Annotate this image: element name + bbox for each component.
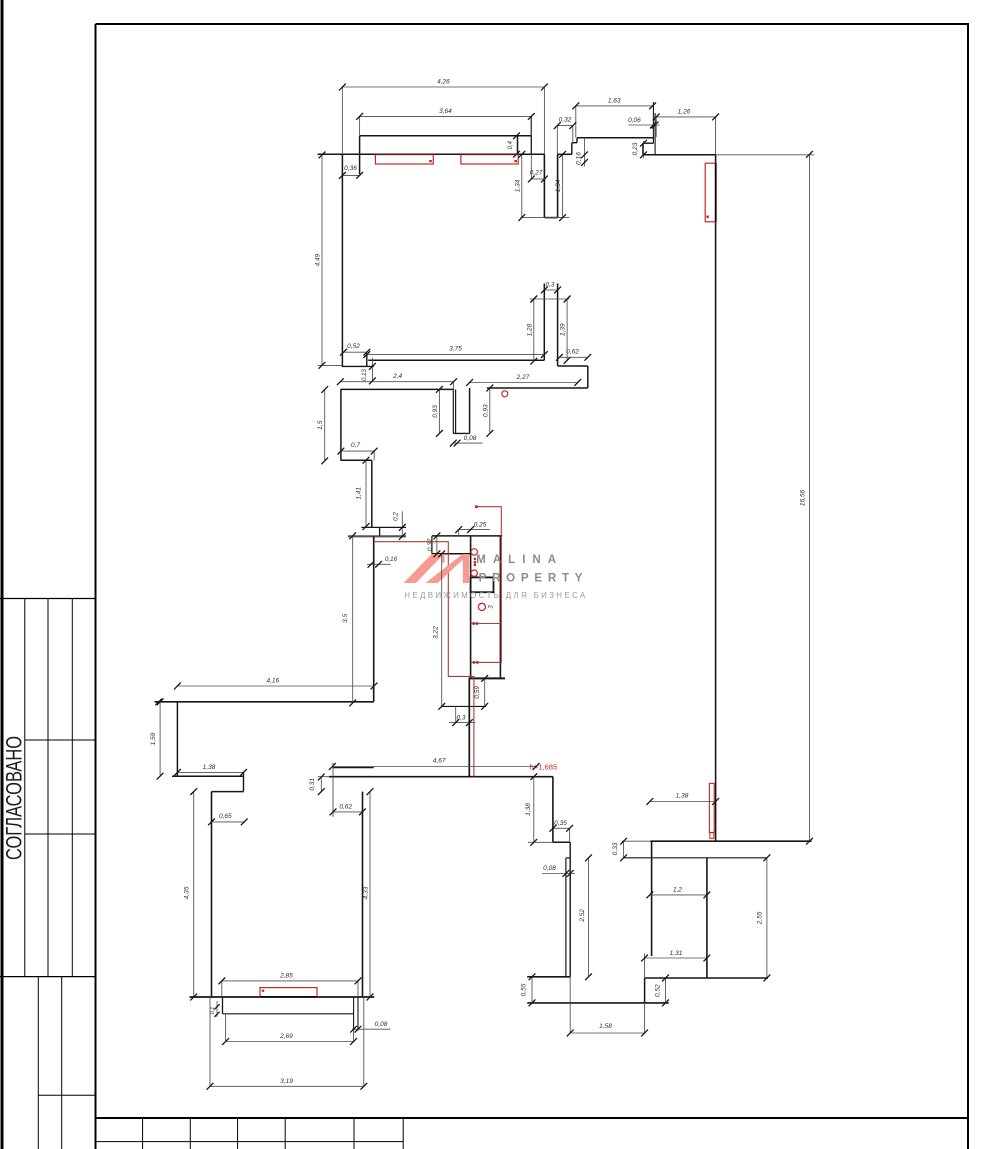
logo stripe 2 leg	[463, 554, 469, 583]
svg-text:0,16: 0,16	[385, 556, 398, 563]
extension 0,25 left	[458, 530, 460, 536]
svg-text:0,7: 0,7	[351, 442, 360, 449]
wall window jamb vertical x517	[517, 136, 519, 155]
svg-text:0,55: 0,55	[521, 983, 528, 996]
dimension 1,38 mid	[525, 773, 537, 845]
wall left wing lower horizontal	[172, 775, 244, 777]
wall niche bottom	[453, 432, 469, 434]
line 0,2 dim	[401, 511, 403, 536]
dimension 2,69	[222, 1033, 357, 1045]
extension 4,49 bottom horizontal	[318, 364, 342, 366]
svg-text:1,63: 1,63	[608, 97, 621, 104]
wall x651 vertical	[651, 841, 653, 956]
ticks 0,1 tiny	[214, 1004, 219, 1017]
ticks 0,08 niche	[450, 440, 461, 447]
wall shaft left vertical	[470, 536, 472, 678]
svg-text:0,62: 0,62	[339, 803, 352, 810]
dimension 1,38 right	[646, 793, 719, 805]
extension 2,69 right	[353, 1031, 355, 1042]
extension 1,63 left	[575, 106, 577, 138]
svg-text:4,33: 4,33	[362, 886, 369, 899]
red window rect 2	[461, 155, 518, 164]
wall niche2 right vertical	[371, 460, 373, 527]
svg-text:0,62: 0,62	[566, 348, 579, 355]
wall hall top horizontal	[340, 388, 453, 390]
wall shaft bottom cap	[469, 677, 505, 679]
svg-text:0,33: 0,33	[612, 842, 619, 855]
wall corner jog x366	[366, 353, 368, 366]
svg-text:3,75: 3,75	[449, 346, 462, 353]
svg-text:2,69: 2,69	[279, 1033, 293, 1040]
dimension 0,36 top-left	[339, 165, 363, 179]
wall room bottom inner horizontal	[223, 1013, 354, 1015]
wall overlay over window 2 top	[461, 153, 518, 155]
bottom table column line 3	[237, 1118, 239, 1149]
svg-text:0,36: 0,36	[344, 165, 357, 172]
wall vestibule bottom	[544, 217, 557, 219]
extension 3,64 right	[530, 116, 532, 135]
svg-text:16,56: 16,56	[799, 489, 806, 506]
wall corridor top horizontal	[333, 767, 374, 769]
red circle fixture 1	[471, 549, 477, 555]
svg-text:3,64: 3,64	[439, 108, 452, 115]
dimension 4,16	[174, 677, 377, 689]
svg-text:1,26: 1,26	[678, 108, 691, 115]
wall below shaft vertical	[468, 678, 470, 776]
dimension 4,67	[329, 758, 540, 770]
svg-text:1,31: 1,31	[670, 950, 683, 957]
svg-text:4,49: 4,49	[315, 253, 322, 266]
dimension 2,27	[466, 374, 581, 386]
dimension 1,34 left	[514, 151, 525, 221]
red window rect 1	[375, 155, 433, 164]
svg-text:1,38: 1,38	[203, 764, 216, 771]
red supply polyline	[374, 542, 474, 777]
svg-text:0,59: 0,59	[474, 686, 481, 699]
svg-text:0,08: 0,08	[543, 865, 556, 872]
dimension 0,35	[550, 820, 574, 832]
wall step horizontal a	[572, 142, 577, 144]
wall small horizontal y706	[442, 705, 486, 707]
wall left wing vertical	[176, 702, 178, 776]
wall corridor bottom horizontal	[329, 776, 553, 778]
dimension 4,33	[362, 788, 373, 1000]
svg-text:НЕДВИЖИМОСТЬ ДЛЯ БИЗНЕСА: НЕДВИЖИМОСТЬ ДЛЯ БИЗНЕСА	[404, 591, 587, 600]
red circle fixture 2	[471, 570, 477, 576]
line 0,08 jamb dim	[352, 1028, 390, 1030]
extension 1,26 left	[655, 117, 657, 137]
svg-text:0,65: 0,65	[219, 813, 232, 820]
dimension 0,62 door	[330, 803, 366, 815]
dimension 4,26	[339, 79, 548, 91]
extension 2,85 left	[221, 981, 223, 997]
line 0,08 doublet dim	[542, 873, 575, 875]
svg-text:0,37: 0,37	[427, 538, 434, 551]
bottom table row line	[96, 1141, 404, 1143]
svg-text:0,25: 0,25	[474, 521, 487, 528]
svg-text:1,2: 1,2	[673, 886, 682, 893]
svg-text:3: 3	[488, 605, 494, 609]
line 0,1 tiny dim	[216, 1001, 218, 1017]
ticks 0,16 low	[368, 561, 382, 568]
svg-text:1,39: 1,39	[560, 323, 567, 336]
wall lower-left horizontal y976	[527, 976, 570, 978]
red small box below	[710, 833, 714, 839]
dimension 0,31	[309, 774, 325, 795]
dimension 0,52 top-left	[340, 343, 370, 355]
ticks 0,4 window	[513, 132, 520, 157]
line 0,13 dim	[371, 358, 373, 382]
dimension 0,52 low	[655, 975, 669, 1007]
wall short horizontal y527	[361, 526, 406, 528]
wall small stub horizontal	[643, 142, 654, 144]
wall shaft top horizontal	[432, 535, 502, 537]
dimension 1,39	[560, 296, 571, 364]
wall room right vertical	[362, 792, 364, 997]
wall end vertical pair b	[654, 113, 656, 155]
line 0,06 dim	[628, 124, 660, 126]
svg-text:1,38: 1,38	[525, 803, 532, 816]
dimension 4,49	[315, 152, 326, 369]
red mark in radiator	[262, 990, 264, 992]
svg-text:2,85: 2,85	[279, 973, 293, 980]
ticks 0,13	[369, 363, 376, 384]
extension 0,3 low	[455, 706, 457, 722]
wall room top left horizontal	[212, 791, 244, 793]
wall overlay over right window	[715, 163, 717, 222]
svg-text:0,3: 0,3	[456, 714, 465, 721]
wall overlay over radiator	[260, 996, 317, 998]
dimension 3,5	[342, 532, 356, 706]
svg-text:0,52: 0,52	[655, 984, 662, 997]
wall niche left vertical b	[455, 389, 457, 433]
ticks 0,23	[640, 140, 647, 158]
wall top right horizontal	[643, 154, 716, 156]
dimension 0,65	[208, 813, 248, 825]
wall x644 vertical	[644, 978, 646, 1003]
dimension 0,59	[474, 675, 488, 710]
line 0,23 dim	[643, 141, 645, 158]
dimension 3,22	[433, 550, 446, 709]
ticks 0,06	[650, 122, 659, 129]
svg-text:0,06: 0,06	[628, 117, 641, 124]
svg-text:1,58: 1,58	[599, 1023, 612, 1030]
red riser line top	[471, 505, 502, 664]
svg-text:4,35: 4,35	[184, 886, 191, 899]
wall inner right vertical	[530, 116, 532, 154]
svg-text:СОГЛАСОВАНО: СОГЛАСОВАНО	[1, 736, 26, 860]
svg-text:1,34: 1,34	[555, 179, 562, 192]
wall step vertical b	[576, 138, 578, 143]
dimension 2,4	[337, 373, 457, 385]
svg-text:0,4: 0,4	[508, 140, 514, 149]
dimension 1,59	[150, 698, 164, 779]
red mark in window 1	[429, 160, 432, 162]
red dots between fixtures	[474, 558, 477, 567]
duct box	[471, 577, 494, 592]
dimension 0,3 chimney	[541, 281, 561, 293]
wall outer left vertical	[341, 154, 343, 366]
wall top inner horizontal	[360, 135, 532, 137]
wall connector vertical x379	[379, 527, 381, 536]
wall right long vertical	[715, 155, 717, 841]
extension 0,27	[530, 154, 532, 179]
ticks 0,08 doublet	[563, 870, 574, 877]
dimension 0,93 b	[482, 385, 493, 437]
wall chimney left vertical	[543, 284, 545, 361]
svg-text:0,08: 0,08	[375, 1021, 388, 1028]
wall mid right horizontal	[558, 365, 588, 367]
dimension 0,27	[528, 170, 548, 183]
wall room bottom jamb right vertical b	[357, 997, 359, 1031]
svg-text:2,27: 2,27	[516, 374, 530, 381]
wall bottom right horizontal y841	[650, 840, 811, 842]
svg-text:0,08: 0,08	[464, 435, 477, 442]
logo stripe 1 tail	[442, 554, 445, 563]
wall x706 vertical	[706, 858, 708, 978]
line 0,3 low dim	[449, 719, 475, 726]
svg-text:0,23: 0,23	[632, 142, 639, 155]
extension 0,7 right	[373, 451, 375, 460]
wall lower horizontal y1002	[527, 1002, 669, 1004]
svg-text:0,31: 0,31	[309, 778, 316, 791]
red branch line	[471, 622, 502, 625]
thin line vestibule bottom extension	[521, 217, 570, 219]
wall stub vertical left of window	[359, 136, 361, 174]
dimension 2,85	[218, 973, 361, 985]
dimension 0,37	[427, 533, 441, 558]
line 0,16 upper dim	[584, 138, 586, 167]
svg-text:1,59: 1,59	[150, 732, 157, 745]
title block row line 1	[25, 739, 96, 741]
line 0,16 low dim	[367, 563, 391, 565]
svg-text:1,28: 1,28	[526, 323, 533, 336]
wall left vertical upper	[340, 389, 342, 460]
svg-text:0,27: 0,27	[530, 170, 543, 177]
wall end vertical pair a	[652, 102, 654, 144]
title block lower row line	[38, 1094, 95, 1096]
extension 0,32 right	[572, 126, 574, 143]
wall room left vertical	[211, 792, 213, 997]
svg-text:0,35: 0,35	[554, 820, 567, 827]
dimension 16,56	[799, 151, 813, 845]
wall overlay over window 1 top	[375, 153, 433, 155]
chimney top dim line	[529, 296, 570, 303]
title block mid line	[0, 976, 96, 978]
thin extension x644 lower	[644, 1003, 646, 1034]
dimension 0,33	[612, 838, 627, 861]
svg-text:0,52: 0,52	[347, 343, 360, 350]
wall shaft second horizontal	[432, 553, 471, 555]
wall left door jamb vertical	[243, 772, 245, 791]
red circle fixture big	[478, 603, 485, 610]
bottom table top line	[96, 1117, 969, 1119]
wall room bottom horizontal	[190, 996, 375, 998]
red window rect right vertical	[705, 163, 716, 222]
title block lower column line a	[37, 977, 39, 1149]
wall top right of vestibule	[558, 153, 572, 155]
extension 1,58 left	[569, 977, 571, 1033]
wall gray horizontal y536	[348, 535, 406, 537]
svg-text:4,67: 4,67	[433, 758, 446, 765]
wall y978 horizontal	[645, 977, 768, 979]
svg-text:0,13: 0,13	[362, 369, 368, 381]
dimension 3,75	[363, 346, 547, 358]
extension 0,32 left	[556, 126, 558, 155]
dimension 0,55	[521, 973, 536, 1006]
wall seam top cap	[566, 857, 570, 859]
dimension 1,38 left	[174, 764, 247, 776]
dimension 4,35	[184, 788, 198, 1000]
wall wc bottom horizontal	[553, 841, 570, 843]
dimension 1,63	[572, 97, 656, 109]
wall room2 top horizontal y857	[624, 857, 767, 859]
svg-text:1,34: 1,34	[514, 179, 521, 192]
svg-text:2,55: 2,55	[757, 911, 764, 925]
thin corridor bottom extension	[318, 776, 329, 778]
extension 2,85 right	[357, 981, 359, 997]
ticks 0,25	[455, 526, 474, 533]
svg-text:0,1: 0,1	[210, 1007, 216, 1015]
wall shaft right vertical	[499, 536, 501, 678]
bottom table column line 2	[189, 1118, 191, 1149]
ticks 0,2	[399, 524, 406, 540]
wall small stub vertical	[642, 143, 644, 155]
wall niche right vertical	[469, 388, 471, 433]
ticks 0,16 upper	[581, 151, 588, 165]
extension vertical x333	[332, 763, 334, 817]
dimension 2,55	[757, 854, 771, 981]
svg-text:1,5: 1,5	[317, 420, 324, 429]
bottom table column line 6	[402, 1118, 404, 1149]
wall left jamb bottom	[342, 365, 374, 367]
line 0,08 niche dim	[453, 442, 482, 444]
thin extension y842	[528, 841, 553, 843]
svg-text:MALINA: MALINA	[476, 554, 563, 566]
dimension 0,62 right	[556, 348, 591, 360]
wall chimney right vertical	[557, 284, 559, 367]
logo stripe 2	[425, 554, 469, 583]
wall seam left vertical	[565, 858, 567, 977]
dimension 1,41	[356, 457, 370, 530]
svg-text:0,93: 0,93	[482, 404, 489, 417]
dimension 1,5	[317, 386, 328, 464]
dimension 1,26	[653, 108, 719, 120]
thin line wall top to 16,56 dim	[716, 154, 815, 156]
wall room bottom jamb left vertical	[222, 997, 224, 1014]
wall step down vertical	[587, 366, 589, 388]
extension 3,19 right	[363, 997, 365, 1086]
title block column line b	[47, 599, 49, 977]
svg-text:3,19: 3,19	[280, 1078, 293, 1085]
line 0,25 dim	[458, 529, 489, 531]
extension 3,64 left	[359, 116, 361, 135]
wall long left vertical x373	[373, 536, 375, 702]
dimension 3,64	[356, 108, 535, 120]
svg-text:0,16: 0,16	[576, 152, 583, 165]
svg-text:3,22: 3,22	[433, 626, 440, 639]
svg-text:4,26: 4,26	[437, 79, 450, 86]
dimension 0,7	[338, 442, 378, 454]
wall wc left vertical	[552, 777, 554, 843]
red circle near wall y388	[502, 391, 508, 397]
dimension 1,34 right	[555, 151, 566, 221]
dimension 2,52	[579, 855, 592, 981]
wall room bottom jamb right vertical a	[353, 997, 355, 1031]
thin extension x644 upper	[644, 954, 646, 978]
wall mid horizontal 3_75	[368, 359, 544, 361]
title block column line c	[71, 599, 73, 977]
dimension 1,58	[567, 1023, 648, 1036]
title block top line	[0, 598, 96, 600]
extension 2,69 left	[225, 1014, 227, 1042]
extension 4,26 left	[341, 87, 343, 154]
svg-text:4,16: 4,16	[266, 677, 279, 684]
svg-text:0,2: 0,2	[393, 512, 400, 521]
extension right wall top	[715, 117, 717, 155]
wall lower mid horizontal	[487, 387, 588, 389]
red mark in right window	[706, 216, 708, 219]
svg-text:PROPERTY: PROPERTY	[479, 572, 589, 584]
logo stripe 1	[404, 554, 445, 583]
ticks 0,08 jamb	[350, 1026, 361, 1033]
wall seam right vertical	[569, 842, 571, 977]
title block row line 2	[25, 833, 96, 835]
red radiator rect bottom room	[260, 988, 317, 997]
extension 0,35 right vertical	[569, 828, 571, 842]
extension 3,19 left	[209, 997, 211, 1086]
svg-text:0,3: 0,3	[545, 281, 554, 288]
svg-text:0,93: 0,93	[432, 405, 439, 418]
title block lower column line b	[61, 977, 63, 1149]
svg-text:1,38: 1,38	[676, 793, 689, 800]
wall vestibule right vertical	[557, 154, 559, 217]
dimension 1,2	[646, 886, 710, 898]
svg-text:1,41: 1,41	[356, 487, 363, 500]
wall upper-right horizontal	[577, 137, 653, 139]
wall left wing top	[155, 701, 374, 703]
title block column line a	[24, 599, 26, 977]
svg-text:2,52: 2,52	[579, 909, 586, 923]
svg-text:0,32: 0,32	[559, 117, 572, 124]
red narrow rect lower right	[709, 783, 714, 832]
page left edge line	[1, 0, 4, 1149]
svg-text:h=1,685: h=1,685	[530, 763, 558, 772]
dimension 1,28	[526, 296, 537, 365]
bottom table column line 1	[142, 1118, 144, 1149]
red mark in window 2	[514, 160, 517, 162]
svg-text:2,4: 2,4	[392, 373, 402, 380]
svg-text:3,5: 3,5	[342, 613, 349, 622]
wall top main horizontal	[318, 153, 545, 155]
dimension 0,32	[554, 117, 576, 129]
extension 2,4 right	[453, 382, 455, 390]
wall niche2 horizontal	[340, 459, 371, 461]
dimension 3,19	[207, 1078, 368, 1090]
bottom table column line 4	[284, 1118, 286, 1149]
bottom table column line 5	[353, 1118, 355, 1149]
thin extension y841 left	[622, 840, 650, 842]
extension 4,26 right	[543, 87, 545, 154]
wall shaft left small vertical	[431, 536, 433, 554]
wall niche left vertical a	[452, 389, 454, 433]
dimension 0,93 a	[432, 386, 443, 437]
tick wall left wing	[155, 698, 162, 705]
wall step vertical a	[571, 143, 573, 155]
wall vestibule left vertical	[543, 154, 545, 217]
dimension 1,31	[641, 950, 710, 961]
